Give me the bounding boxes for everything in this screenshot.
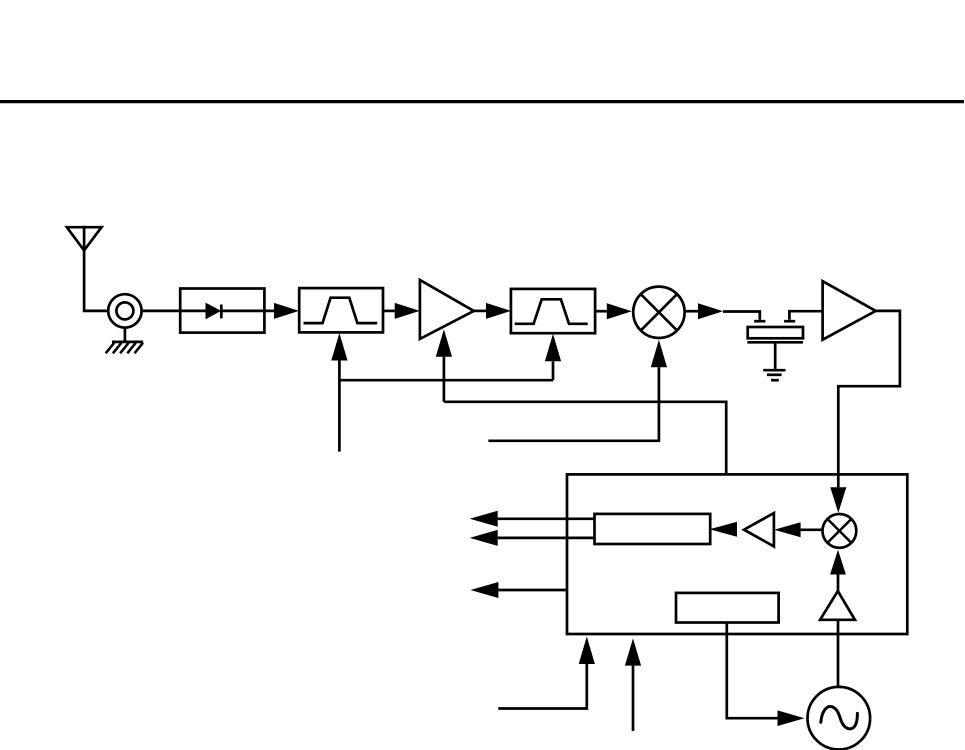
feedback wire A2 to mixer M2 <box>838 311 900 487</box>
bandpass filter F1 <box>299 288 383 332</box>
arrow up into mixer M1 <box>651 340 667 368</box>
arrow down into mixer M2 <box>830 487 846 513</box>
reference input arrow A into U1 <box>498 637 595 709</box>
arrow left into A3 <box>774 522 801 537</box>
wire mixer to crystal filter <box>723 312 760 320</box>
arrow up into A1 <box>436 329 452 357</box>
arrow left out 2 <box>470 530 498 546</box>
amplifier A4 (points up) <box>820 591 855 620</box>
clock input arrow B into U1 <box>625 638 641 731</box>
output line 3 from box edge <box>498 589 567 592</box>
chassis ground <box>106 342 144 353</box>
mixer M2 <box>823 514 857 548</box>
amplifier A2 <box>823 281 876 340</box>
bus2 wire to big box <box>444 402 726 475</box>
mixer M1 <box>633 287 684 338</box>
amplifier A1 <box>420 280 474 339</box>
divider rect inside U1 <box>676 593 779 623</box>
wire oscillator to A4 <box>837 620 840 687</box>
arrow left into register <box>710 522 738 537</box>
wire F1 to A1 <box>383 310 395 313</box>
wire A1 to F2 <box>474 310 486 313</box>
crystal filter Y1 <box>747 311 822 369</box>
buffer amp A3 (points left) <box>744 513 774 546</box>
wire to mixer M1 bottom <box>488 367 659 441</box>
arrow into filter F1 <box>274 303 299 319</box>
wire mixer M2 to arrow <box>801 528 823 531</box>
header rule <box>0 100 964 103</box>
arrow right into oscillator <box>778 710 805 726</box>
wire F2 to mixer <box>595 310 607 313</box>
connector J1 <box>108 294 180 341</box>
arrow left out 1 <box>470 511 498 527</box>
wire amp A4 to arrow <box>837 575 840 592</box>
arrow into amp A1 <box>395 303 420 319</box>
arrow into filter F2 <box>486 303 511 319</box>
output lines from register to left arrows <box>498 519 595 538</box>
limiter box with diode D1 <box>180 289 274 333</box>
arrow out of mixer M1 <box>685 303 723 319</box>
arrow up into mixer M2 from below <box>830 550 846 575</box>
ground (crystal) <box>763 370 785 380</box>
arrow up into F2 <box>545 334 561 362</box>
antenna <box>67 226 107 311</box>
arrow up into F1 <box>331 333 347 361</box>
wire rect2 to oscillator <box>727 623 778 719</box>
control line bus to F1 A1 F2 <box>339 357 553 452</box>
PLL synthesizer box U1 <box>567 474 907 634</box>
oscillator X1 <box>808 687 871 750</box>
bandpass filter F2 <box>511 289 595 333</box>
arrow left out 3 <box>470 582 498 598</box>
register rect inside U1 <box>595 514 711 544</box>
arrow into mixer M1 <box>607 303 632 319</box>
